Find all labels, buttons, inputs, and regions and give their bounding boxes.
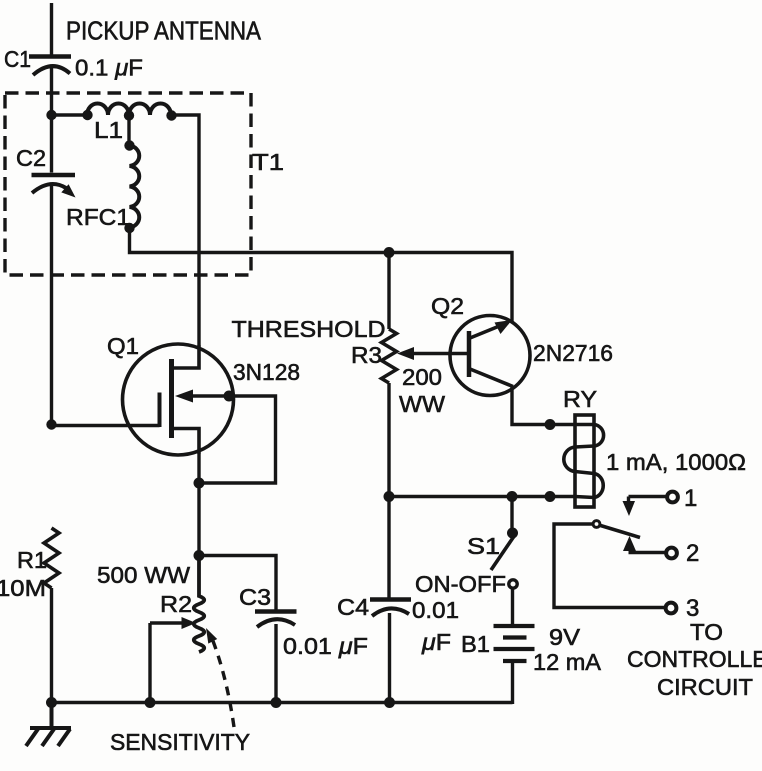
- node source junction: [194, 478, 205, 489]
- node antenna/L1 junction: [46, 110, 56, 120]
- transistor Q2 2N2716: [450, 316, 530, 396]
- svg-text:9V: 9V: [549, 624, 581, 650]
- capacitor C2 (trimmer): [32, 175, 76, 198]
- inductor RFC1: [124, 140, 139, 233]
- svg-text:0.01 μF: 0.01 μF: [283, 633, 368, 659]
- svg-text:C3: C3: [239, 584, 271, 610]
- node R3 top junction: [384, 247, 395, 258]
- wire C3 to ground rail: [274, 624, 277, 703]
- svg-text:RY: RY: [563, 386, 597, 412]
- svg-text:0.1 μF: 0.1 μF: [75, 55, 143, 81]
- wire gate lead: [52, 424, 160, 427]
- svg-text:C1: C1: [4, 46, 31, 72]
- capacitor C3: [255, 612, 297, 628]
- svg-text:2: 2: [686, 540, 699, 567]
- svg-text:C4: C4: [337, 594, 369, 620]
- resistor R2 (squiggle): [194, 556, 205, 653]
- wire antenna lead-in: [50, 3, 53, 56]
- svg-text:Q1: Q1: [107, 333, 139, 359]
- svg-text:R1: R1: [17, 547, 47, 573]
- resistor R1: [44, 528, 59, 588]
- svg-text:TO: TO: [690, 619, 723, 645]
- battery B1: [494, 626, 535, 661]
- node gate junction: [46, 419, 56, 429]
- wiper arrow R2: [150, 617, 196, 629]
- node C3-rail junction: [271, 697, 282, 708]
- node ground-rail left: [46, 697, 57, 708]
- svg-text:Q2: Q2: [431, 293, 464, 319]
- svg-text:CIRCUIT: CIRCUIT: [657, 674, 753, 700]
- svg-text:R3: R3: [351, 342, 382, 368]
- ground rail: [52, 701, 513, 705]
- capacitor C4: [370, 600, 411, 617]
- svg-text:SENSITIVITY: SENSITIVITY: [110, 729, 250, 755]
- svg-text:B1: B1: [461, 631, 490, 657]
- dashed box T1: [5, 93, 251, 275]
- wire R3 node to Q2 collector: [389, 253, 512, 323]
- node C4-rail junction: [384, 697, 395, 708]
- svg-text:R2: R2: [160, 591, 192, 617]
- svg-text:RFC1: RFC1: [66, 204, 130, 230]
- svg-text:2N2716: 2N2716: [533, 340, 613, 366]
- switch S1: [491, 497, 518, 589]
- wire branch to C3: [199, 556, 276, 612]
- svg-text:μF: μF: [421, 629, 451, 655]
- node rail-S1 junction: [507, 491, 518, 502]
- wire RFC1 bottom to R3 top: [130, 228, 390, 253]
- relay coil RY: [564, 415, 604, 507]
- wire L1 to Q1 drain: [172, 115, 200, 345]
- svg-text:3: 3: [686, 595, 699, 622]
- svg-text:1: 1: [684, 485, 697, 512]
- svg-text:0.01: 0.01: [412, 597, 459, 623]
- ground symbol: [26, 703, 71, 747]
- contact 2: [623, 536, 677, 558]
- capacitor C1: [29, 57, 71, 76]
- wire C2 down to gate node: [50, 186, 53, 425]
- wire R1 to ground node: [50, 588, 53, 703]
- inductor L1: [82, 104, 176, 121]
- wire L1 tap to RFC1: [127, 115, 130, 146]
- svg-text:THRESHOLD: THRESHOLD: [232, 316, 386, 342]
- wire supply rail y=496: [389, 495, 575, 498]
- wire Q2 emitter to relay: [512, 387, 575, 425]
- wire C4 to ground rail: [388, 613, 391, 703]
- dashed pointer arrow to R2: [206, 628, 234, 727]
- wiper arrow R3 from Q2 base: [397, 347, 469, 360]
- svg-text:1 mA, 1000Ω: 1 mA, 1000Ω: [606, 449, 746, 475]
- wire C1 to C2: [50, 66, 53, 173]
- armature blade: [601, 526, 641, 538]
- node C3 branch junction: [194, 550, 205, 561]
- wire Q1 substrate tie to source: [199, 396, 276, 483]
- svg-text:CONTROLLER: CONTROLLER: [627, 646, 762, 672]
- wire battery to ground rail: [511, 661, 514, 704]
- node relay bottom lead: [545, 491, 556, 502]
- wire source down to R2: [197, 454, 200, 556]
- svg-text:200: 200: [402, 364, 442, 390]
- node relay top lead: [545, 419, 556, 430]
- svg-text:WW: WW: [399, 391, 445, 417]
- node rail-R3 junction: [384, 491, 395, 502]
- relay armature pivot: [593, 521, 600, 528]
- resistor R3: [382, 253, 397, 600]
- svg-text:T1: T1: [252, 149, 284, 175]
- wire S1 to battery: [511, 589, 514, 626]
- contact 3: [666, 603, 677, 614]
- transistor Q1 3N128: [123, 344, 235, 455]
- svg-text:12 mA: 12 mA: [533, 649, 602, 675]
- contact 1: [623, 492, 678, 516]
- svg-text:S1: S1: [467, 533, 500, 559]
- svg-text:C2: C2: [16, 145, 46, 171]
- wire armature to contact 3: [554, 524, 665, 608]
- svg-text:3N128: 3N128: [233, 359, 300, 385]
- wire wiper to ground rail: [148, 623, 151, 703]
- svg-text:PICKUP ANTENNA: PICKUP ANTENNA: [66, 18, 261, 46]
- svg-text:L1: L1: [94, 117, 123, 143]
- svg-text:ON-OFF: ON-OFF: [415, 571, 506, 597]
- svg-text:10M: 10M: [0, 575, 46, 601]
- node wiper-rail junction: [145, 697, 156, 708]
- wire node to L1: [52, 113, 89, 116]
- svg-text:500 WW: 500 WW: [97, 562, 190, 588]
